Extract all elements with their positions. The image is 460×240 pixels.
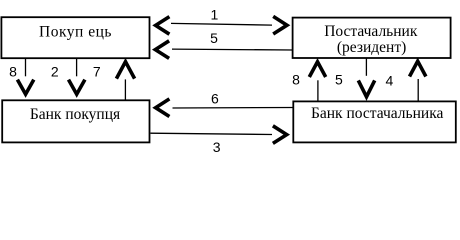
wire up arrow 4 right shaft [417, 79, 419, 101]
wire down arrow 2 shaft [76, 58, 78, 76]
svg-text:6: 6 [211, 91, 219, 107]
arrowhead line 1 right (points to Постачальник) [273, 16, 287, 34]
arrowhead down arrow 8 [17, 80, 33, 95]
svg-text:7: 7 [93, 64, 101, 80]
arrowhead line 6 left [156, 99, 170, 117]
wire down arrow 5 right (Постачальник → Банк постачальника) shaft [365, 58, 367, 76]
wire down arrow 8 (Покупець → Банк покупця) shaft [25, 58, 27, 76]
arrowhead line 3 right [273, 126, 287, 144]
svg-text:5: 5 [210, 30, 218, 46]
arrowhead up arrow 7 [116, 62, 134, 79]
arrowhead down arrow 5 right [358, 80, 374, 96]
svg-text:8: 8 [9, 63, 17, 79]
svg-text:5: 5 [335, 72, 343, 88]
arrowhead line 1 left (points to Покупець) [156, 17, 170, 35]
svg-text:Покуп ець: Покуп ець [39, 24, 112, 41]
wire up arrow 8 right (Банк постачальника → Постачальник) shaft [317, 80, 319, 101]
arrowhead up arrow 4 right [410, 61, 426, 76]
wire up arrow 7 (Банк покупця → Покупець) shaft [124, 79, 126, 100]
box Банк постачальника [293, 101, 456, 142]
arrowhead down arrow 2 [69, 80, 85, 95]
svg-text:1: 1 [211, 7, 219, 23]
svg-text:Банк постачальника: Банк постачальника [311, 105, 444, 122]
wire line 3 (Банк покупця → Банк постачальника) [151, 133, 273, 134]
svg-text:2: 2 [51, 64, 59, 80]
box Банк покупця [2, 100, 149, 142]
svg-text:(резидент): (резидент) [337, 39, 406, 56]
svg-text:4: 4 [386, 72, 394, 88]
wire line 6 (Банк постачальника → Банк покупця) [173, 107, 293, 110]
arrowhead line 5 left (points to Покупець) [155, 41, 169, 59]
svg-text:8: 8 [292, 72, 300, 88]
svg-text:Банк покупця: Банк покупця [30, 106, 120, 123]
arrowhead up arrow 8 right [309, 62, 325, 77]
wire line 5 (Постачальник → Покупець) [172, 48, 293, 51]
box Постачальник (резидент) [293, 18, 451, 58]
box Покупець [1, 17, 149, 58]
svg-text:3: 3 [213, 139, 221, 155]
wire line 1 (Постачальник ↔ Покупець) [171, 23, 272, 25]
svg-text:Постачальник: Постачальник [324, 23, 418, 40]
